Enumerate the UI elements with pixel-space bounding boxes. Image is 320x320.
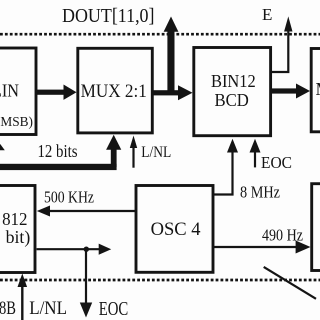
svg-text:8B: 8B <box>0 298 16 319</box>
wire LIN to MUX thick arrow <box>36 85 77 100</box>
svg-text:E: E <box>262 5 272 24</box>
dotted chip boundary bottom <box>0 279 320 282</box>
svg-text:8 MHz: 8 MHz <box>240 183 280 202</box>
wire DOUT bus vertical thick arrow <box>164 17 179 94</box>
svg-text:L/NL: L/NL <box>141 144 171 161</box>
wire 8B up arrow into 812 <box>18 274 28 320</box>
wire MUX to BIN12 thick arrow <box>153 85 193 100</box>
block OSC 4 <box>136 186 213 273</box>
wire 8 MHz from OSC to BIN12 <box>213 139 238 195</box>
block BIN12 BCD <box>194 48 271 136</box>
wire E from BIN12 <box>271 31 289 73</box>
svg-text:812: 812 <box>2 209 27 229</box>
block 812 (12 bit) (cut at left) <box>0 186 35 273</box>
wire EOC out of 812 with junction <box>37 244 112 318</box>
svg-text:OSC 4: OSC 4 <box>151 220 201 240</box>
svg-text:EOC: EOC <box>99 298 129 320</box>
svg-text:490 Hz: 490 Hz <box>262 226 303 245</box>
svg-text:DOUT[11,0]: DOUT[11,0] <box>62 6 155 27</box>
block bottom-right (cut at right) <box>312 184 320 271</box>
svg-text:EOC: EOC <box>261 153 292 172</box>
svg-text:500 KHz: 500 KHz <box>44 188 94 207</box>
wire 490 Hz from OSC to right block <box>213 241 311 254</box>
arrowhead E <box>284 16 292 31</box>
cut arrowhead at left edge <box>0 144 5 150</box>
svg-text:BCD: BCD <box>215 90 249 110</box>
svg-text:12 bits: 12 bits <box>38 141 78 161</box>
block top-right (cut at right) <box>311 49 320 132</box>
wire 500 KHz from OSC to 812 <box>37 206 136 217</box>
dotted chip boundary top <box>0 33 320 36</box>
junction node <box>84 247 89 252</box>
svg-text:bit): bit) <box>6 227 31 248</box>
svg-text:(MSB): (MSB) <box>0 114 33 129</box>
diagonal bus slash <box>264 267 316 299</box>
wire BIN12 to right block thick arrow <box>271 84 310 99</box>
wire EOC stub into BIN12 <box>250 139 261 168</box>
svg-text:L/NL: L/NL <box>29 298 67 319</box>
svg-text:M: M <box>316 79 320 99</box>
svg-text:MUX 2:1: MUX 2:1 <box>81 81 147 102</box>
svg-text:BIN12: BIN12 <box>211 71 256 91</box>
wire 12-bit bus to MUX <box>0 135 121 170</box>
wire EOC down arrow <box>85 249 87 303</box>
svg-text:LIN: LIN <box>0 81 19 101</box>
block LIN (cut at left) <box>0 48 36 135</box>
wire L/NL stub into MUX <box>130 136 137 168</box>
block MUX 2:1 <box>78 48 153 133</box>
